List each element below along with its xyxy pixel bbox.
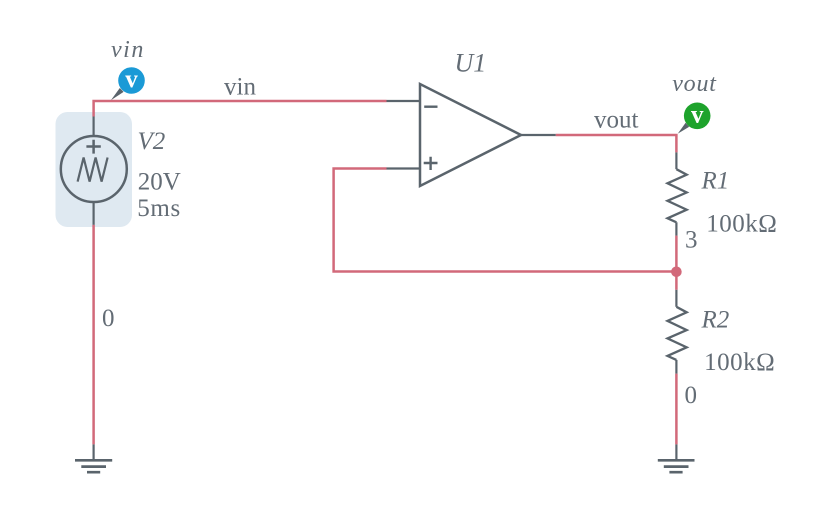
selection highlight around V2 bbox=[56, 112, 133, 227]
wire: R1 bottom through node 3 to R2 top bbox=[675, 236, 678, 290]
op-amp U1 triangle body bbox=[420, 84, 521, 186]
resistor R1 top pin bbox=[675, 152, 677, 169]
svg-text:U1: U1 bbox=[455, 49, 487, 78]
op-amp plus symbol bbox=[424, 157, 438, 170]
wire: V2 bottom to left ground bbox=[92, 225, 95, 445]
resistor R2 zigzag bbox=[668, 307, 687, 360]
svg-text:0: 0 bbox=[685, 382, 698, 409]
V2 plus sign bbox=[86, 140, 100, 154]
voltage source V2 body circle bbox=[61, 136, 127, 202]
V2 triangle-wave symbol bbox=[78, 158, 108, 182]
probe vin pointer bbox=[111, 88, 124, 100]
svg-text:vout: vout bbox=[594, 107, 639, 134]
wire: vin net (top-left corner to op-amp inverting input) bbox=[94, 101, 387, 117]
op-amp minus symbol bbox=[424, 105, 437, 107]
svg-text:5ms: 5ms bbox=[137, 195, 181, 222]
resistor R1 bottom pin bbox=[675, 222, 677, 235]
wire: vout net (op-amp output to R1 top) bbox=[556, 135, 677, 152]
wire: feedback from node 3 to op-amp non-inverting input bbox=[334, 169, 677, 272]
svg-text:100kΩ: 100kΩ bbox=[706, 210, 777, 237]
svg-text:R2: R2 bbox=[701, 306, 730, 333]
node 3 junction dot bbox=[671, 267, 682, 278]
op-amp U1 non-inverting input pin bbox=[387, 167, 421, 169]
svg-text:20V: 20V bbox=[138, 169, 181, 196]
svg-text:V2: V2 bbox=[138, 128, 166, 155]
svg-text:100kΩ: 100kΩ bbox=[704, 349, 775, 376]
right ground bars bbox=[658, 460, 695, 472]
resistor R2 top pin bbox=[675, 290, 677, 307]
svg-text:vout: vout bbox=[672, 71, 717, 97]
op-amp U1 inverting input pin bbox=[387, 100, 421, 102]
wire: R2 bottom to right ground bbox=[675, 374, 678, 445]
right ground stub bbox=[675, 444, 677, 460]
svg-text:v: v bbox=[125, 66, 138, 93]
svg-text:3: 3 bbox=[685, 227, 698, 254]
svg-text:R1: R1 bbox=[701, 167, 730, 194]
op-amp U1 output pin bbox=[521, 134, 556, 136]
svg-text:vin: vin bbox=[224, 74, 256, 101]
probe vout circle bbox=[684, 103, 711, 130]
voltage source V2 top pin bbox=[92, 117, 94, 137]
svg-text:vin: vin bbox=[111, 37, 145, 63]
left ground bars bbox=[75, 460, 112, 472]
svg-text:0: 0 bbox=[102, 305, 115, 332]
resistor R2 bottom pin bbox=[675, 360, 677, 374]
resistor R1 zigzag bbox=[668, 169, 687, 222]
probe vout pointer bbox=[678, 123, 689, 134]
voltage source V2 bottom pin bbox=[92, 202, 94, 225]
svg-text:v: v bbox=[691, 101, 704, 128]
probe vin circle bbox=[118, 67, 145, 94]
left ground stub bbox=[92, 444, 94, 460]
